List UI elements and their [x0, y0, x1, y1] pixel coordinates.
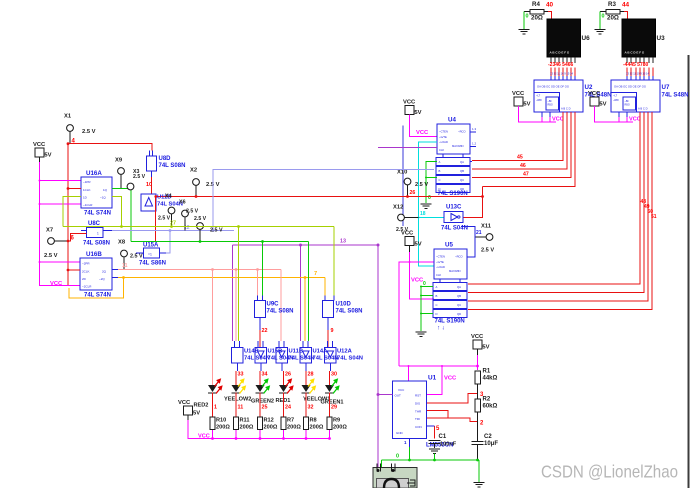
svg-text:R1: R1 [483, 369, 491, 375]
power VCC for U7 [590, 97, 599, 106]
svg-text:5V: 5V [193, 411, 200, 417]
wire U16A notQ to feedback [112, 197, 122, 227]
inverter U11B 74LS04N [278, 341, 280, 348]
wire clock net to oscilloscope [377, 244, 379, 470]
wire orange loop under U16B [69, 278, 124, 299]
svg-text:200Ω: 200Ω [240, 425, 254, 431]
svg-text:44kΩ: 44kΩ [483, 376, 498, 382]
svg-text:R8: R8 [310, 418, 317, 424]
LED RED1 [279, 385, 288, 392]
wire resistor R12 to VCC bus [259, 430, 261, 439]
svg-text:U1: U1 [428, 375, 437, 382]
svg-text:~CTEN: ~CTEN [439, 130, 448, 134]
power VCC for U4 [405, 106, 414, 115]
svg-text:U5: U5 [445, 242, 453, 249]
svg-text:13: 13 [340, 239, 346, 245]
svg-text:~2Q: ~2Q [99, 277, 105, 281]
svg-text:0: 0 [602, 14, 605, 20]
svg-text:CSDN @LionelZhao: CSDN @LionelZhao [541, 462, 678, 482]
svg-text:60kΩ: 60kΩ [483, 404, 498, 410]
svg-text:OA OB OC OD OE OF OG: OA OB OC OD OE OF OG [614, 85, 646, 89]
svg-text:QB: QB [457, 294, 461, 298]
seven-segment display U6 [547, 19, 581, 57]
svg-text:X2: X2 [190, 168, 197, 174]
svg-text:28: 28 [308, 372, 314, 378]
svg-text:VCC: VCC [398, 388, 405, 392]
LED GREEN1 [325, 385, 334, 392]
svg-text:GND: GND [396, 431, 404, 435]
wire U1 THR [427, 411, 448, 419]
svg-text:CON: CON [415, 425, 422, 429]
resistor R4 [524, 11, 530, 13]
wire LED YEELOW1 to resistor R8 [305, 393, 307, 418]
wire resistor R11 to VCC bus [235, 430, 237, 439]
svg-text:X6: X6 [179, 200, 186, 206]
wire U4 CLK from clock net [378, 147, 437, 149]
wire U4 ground tie [426, 162, 437, 204]
svg-text:21: 21 [476, 230, 482, 236]
wire ground bus green [382, 459, 480, 461]
svg-text:1: 1 [97, 232, 99, 236]
svg-text:5V: 5V [44, 153, 51, 159]
decoder U7 74LS48N [611, 80, 660, 112]
svg-text:20Ω: 20Ω [531, 15, 543, 22]
svg-text:2.5 V: 2.5 V [186, 209, 199, 215]
svg-text:QC: QC [457, 303, 461, 307]
svg-text:A B C D E F G: A B C D E F G [550, 51, 570, 55]
svg-text:X11: X11 [481, 224, 492, 230]
svg-text:200Ω: 200Ω [333, 425, 347, 431]
AND gate U8D 74LS08N [151, 144, 153, 151]
capacitor C2 10uF [477, 422, 479, 442]
svg-text:A: A [439, 160, 441, 164]
svg-text:34: 34 [262, 372, 268, 378]
svg-text:10μF: 10μF [484, 441, 498, 447]
power VCC for U2 [514, 97, 523, 106]
svg-text:44: 44 [622, 2, 630, 9]
svg-text:X7: X7 [46, 228, 53, 234]
wire U2 input D bus [483, 112, 576, 187]
svg-text:VCC: VCC [178, 400, 191, 406]
resistor R1 44k [475, 371, 481, 384]
wire U4 load cyan [419, 142, 438, 266]
svg-text:9: 9 [331, 328, 334, 334]
wire yellow-green feedback bus [63, 226, 334, 228]
wire net 13 purple horizontal [233, 244, 379, 246]
svg-text:VCC: VCC [444, 376, 457, 382]
wire VCC to U16A clear [40, 203, 82, 205]
svg-text:A B C D E F G: A B C D E F G [625, 51, 645, 55]
svg-text:46: 46 [520, 163, 526, 169]
display U6 pins [550, 57, 552, 63]
svg-text:~2CLR: ~2CLR [82, 285, 92, 289]
LED YEELOW1 [302, 385, 311, 392]
wire blue vertical net [402, 126, 404, 227]
svg-text:11: 11 [122, 263, 128, 269]
svg-text:~LOAD: ~LOAD [436, 265, 445, 269]
svg-text:20Ω: 20Ω [607, 15, 619, 22]
resistor R3 [600, 11, 606, 13]
svg-text:24: 24 [285, 405, 291, 411]
svg-text:U8D: U8D [159, 156, 172, 162]
svg-text:1.2: 1.2 [472, 142, 477, 146]
svg-text:30: 30 [331, 372, 337, 378]
wire VCC to U4 [410, 115, 438, 137]
svg-text:74L S86N: 74L S86N [139, 261, 166, 267]
svg-text:~2PR: ~2PR [82, 262, 90, 266]
svg-text:RBO: RBO [625, 104, 630, 107]
svg-text:~RCO: ~RCO [455, 255, 463, 259]
svg-text:2Q: 2Q [102, 270, 107, 274]
wire yellow-green to U14B [238, 227, 240, 342]
resistor R12 200 ohm [258, 417, 263, 430]
timer U1 LM555CN [393, 381, 427, 439]
wire U16A clock from clock net [68, 188, 81, 190]
svg-text:VCC: VCC [50, 281, 63, 287]
svg-text:U9C: U9C [267, 302, 280, 308]
wire U1 TRI to R2 C2 junction [427, 418, 478, 422]
svg-text:~1Q: ~1Q [100, 196, 106, 200]
svg-text:R10: R10 [216, 418, 226, 424]
svg-text:74L S74N: 74L S74N [84, 211, 111, 217]
svg-text:13 12 11 10 9 15 14: 13 12 11 10 9 15 14 [626, 72, 649, 76]
wire U8C input 2 [81, 230, 87, 232]
svg-text:OA OB OC OD OE OF OG: OA OB OC OD OE OF OG [537, 85, 569, 89]
svg-text:MAX/MIN: MAX/MIN [452, 144, 464, 148]
svg-text:D: D [439, 187, 441, 191]
svg-text:X9: X9 [115, 158, 123, 164]
wire to LED YEELOW1 [305, 363, 307, 371]
svg-text:74L S08N: 74L S08N [83, 241, 110, 247]
wire LED GREEN1 to resistor R9 [329, 393, 331, 418]
svg-text:~LT: ~LT [613, 95, 618, 98]
svg-text:22: 22 [262, 328, 268, 334]
LED GREEN2 [256, 385, 265, 392]
svg-text:D: D [436, 312, 438, 316]
svg-text:U4: U4 [448, 117, 456, 124]
wire green bus [131, 241, 309, 243]
svg-text:MAX/MIN: MAX/MIN [449, 269, 461, 273]
wire LED RED1 to resistor R7 [283, 393, 285, 418]
resistor R10 200 ohm [210, 417, 215, 430]
svg-text:74L S08N: 74L S08N [336, 309, 363, 315]
wire resistor R7 to VCC bus [283, 430, 285, 439]
svg-text:RED1: RED1 [276, 398, 291, 404]
svg-text:26: 26 [410, 190, 416, 196]
wire to LED GREEN1 [329, 363, 331, 371]
svg-text:26: 26 [285, 372, 291, 378]
wire U1 OUT to clock net [378, 394, 393, 396]
svg-text:25: 25 [262, 405, 268, 411]
svg-text:QC: QC [460, 178, 464, 182]
svg-text:VCC: VCC [471, 334, 484, 340]
svg-text:7: 7 [314, 271, 317, 277]
svg-text:R9: R9 [333, 418, 340, 424]
U4 pin stubs right [470, 131, 476, 133]
wire VCC to U16A preset [40, 180, 82, 182]
svg-text:~1CLR: ~1CLR [83, 203, 93, 207]
svg-text:2.5 V: 2.5 V [158, 216, 171, 222]
resistor R2 60k [477, 394, 479, 400]
svg-text:X12: X12 [393, 205, 403, 211]
wire page border right [688, 55, 690, 488]
svg-text:2.5 V: 2.5 V [396, 227, 409, 233]
wire LED RED2 to resistor R10 [212, 393, 214, 418]
inverter U12A 74LS04N [327, 341, 329, 348]
counter U5 74LS190N [434, 249, 467, 279]
svg-text:74L S48N: 74L S48N [662, 93, 689, 99]
svg-text:45: 45 [517, 155, 523, 161]
wire to LED YEELOW2 [236, 363, 238, 371]
wire cyan branch to U13C [419, 217, 444, 219]
wire U4 QA output [470, 161, 472, 163]
svg-text:VCC: VCC [552, 117, 564, 123]
counter U4 74LS190N [437, 124, 470, 154]
svg-text:QD: QD [460, 187, 464, 191]
svg-text:R12: R12 [264, 418, 274, 424]
svg-text:A B C D: A B C D [561, 107, 571, 111]
svg-text:A B C D: A B C D [638, 107, 648, 111]
svg-text:11: 11 [238, 405, 244, 411]
svg-text:~LT: ~LT [536, 95, 541, 98]
svg-text:~LOAD: ~LOAD [439, 140, 448, 144]
wire clock red horizontal [156, 196, 483, 198]
svg-text:X4: X4 [165, 194, 172, 200]
svg-text:R4: R4 [532, 1, 540, 8]
wire green to oscilloscope [381, 460, 383, 469]
svg-text:QD: QD [457, 312, 461, 316]
ground U4 [421, 203, 432, 205]
resistor R11 200 ohm [234, 417, 239, 430]
svg-text:5V: 5V [523, 102, 530, 108]
AND gate U9C 74LS08N [257, 296, 259, 301]
svg-text:C: C [439, 178, 441, 182]
wire VCC to U2 [519, 106, 557, 122]
svg-text:QA: QA [457, 285, 461, 289]
svg-text:1.3: 1.3 [472, 127, 477, 131]
wire U7 input B bus [468, 112, 644, 293]
AND gate U10D 74LS08N [324, 296, 326, 301]
svg-text:U13C: U13C [446, 205, 462, 211]
svg-text:33: 33 [238, 372, 244, 378]
wire VCC rail U1 [477, 349, 479, 355]
svg-text:200Ω: 200Ω [264, 425, 278, 431]
wire salmon to U14B [235, 270, 237, 342]
wire U15A output to lavender [160, 252, 167, 254]
svg-text:-2346 5466: -2346 5466 [548, 62, 574, 68]
ground for R4 [523, 12, 525, 30]
wire VCC to U7 [595, 106, 634, 122]
svg-text:U12A: U12A [337, 349, 353, 355]
wire purple to U14B [232, 245, 234, 341]
svg-text:74L S08N: 74L S08N [267, 309, 294, 315]
svg-text:~1PR: ~1PR [83, 180, 91, 184]
svg-text:B: B [436, 294, 438, 298]
svg-text:74L S04N: 74L S04N [313, 356, 339, 362]
wire C1 bottom to bus [434, 454, 436, 461]
wire yellow-green to U10D [333, 227, 335, 296]
svg-text:C: C [436, 303, 438, 307]
svg-text:U16B: U16B [86, 251, 102, 258]
svg-text:74L S04N: 74L S04N [337, 356, 363, 362]
ground U5 [416, 331, 427, 333]
ground for R3 [599, 12, 601, 30]
svg-text:2.5 V: 2.5 V [415, 182, 428, 188]
wire salmon to LED RED2 [212, 270, 214, 386]
svg-text:U10D: U10D [336, 302, 352, 308]
wire orange to U10D [324, 278, 326, 296]
wires display U6 to decoder U2 [550, 68, 552, 81]
svg-text:2.5 V: 2.5 V [133, 174, 146, 180]
wire U16B notQ orange [112, 277, 118, 279]
svg-text:0: 0 [526, 14, 529, 20]
svg-text:~G/TE: ~G/TE [436, 260, 444, 264]
svg-text:47: 47 [523, 172, 529, 178]
svg-text:-4445 5780: -4445 5780 [623, 62, 649, 68]
svg-text:5V: 5V [482, 345, 489, 351]
svg-text:U14B: U14B [244, 349, 259, 355]
wire salmon to U9C [257, 270, 259, 296]
svg-text:0: 0 [423, 281, 426, 287]
svg-text:74L S08N: 74L S08N [159, 163, 186, 169]
svg-text:13 12 11 10 9 15 14: 13 12 11 10 9 15 14 [550, 72, 573, 76]
ground C1 [429, 448, 440, 450]
svg-text:200Ω: 200Ω [216, 425, 230, 431]
svg-text:R3: R3 [608, 1, 616, 8]
svg-text:VCC: VCC [629, 117, 641, 123]
wire VCC to U5 preset [409, 246, 411, 253]
svg-text:TRI: TRI [415, 417, 420, 421]
svg-text:RED2: RED2 [194, 403, 209, 409]
svg-text:5V: 5V [414, 110, 421, 116]
svg-text:1: 1 [214, 405, 217, 411]
LED RED2 [208, 385, 217, 392]
wire VCC to U16B preset [40, 261, 81, 263]
svg-text:QB: QB [460, 169, 464, 173]
svg-text:~RBI: ~RBI [613, 99, 619, 102]
inverter U15B 74LS04N [257, 341, 259, 348]
svg-text:X10: X10 [397, 170, 407, 176]
svg-text:B: B [439, 169, 441, 173]
wire U16B clock [68, 269, 80, 271]
wire U2 input A bus [472, 112, 563, 161]
svg-text:~G/TE: ~G/TE [439, 135, 447, 139]
wire U7 input C bus [468, 112, 648, 301]
svg-text:2.5 V: 2.5 V [210, 228, 223, 234]
svg-text:U14A: U14A [313, 349, 329, 355]
resistor R8 200 ohm [304, 417, 309, 430]
wire salmon to U11B [280, 270, 282, 342]
wire resistor R9 to VCC bus [329, 430, 331, 439]
svg-text:C2: C2 [484, 434, 492, 440]
svg-text:C1: C1 [439, 434, 447, 440]
svg-text:5V: 5V [599, 102, 606, 108]
wires display U3 to decoder U7 [626, 68, 628, 81]
svg-text:DIS: DIS [415, 402, 420, 406]
svg-text:R11: R11 [240, 418, 250, 424]
wire U2 input C bus [472, 112, 571, 178]
svg-text:OUT: OUT [395, 394, 402, 398]
svg-text:0: 0 [428, 195, 431, 201]
svg-text:RBO: RBO [548, 104, 553, 107]
wire U9C output [259, 318, 261, 331]
wire U7 input D bus [468, 112, 652, 310]
svg-text:1CLK: 1CLK [83, 188, 91, 192]
seven-segment display U3 [622, 19, 656, 57]
wire bus to ground right [478, 460, 480, 482]
svg-text:40: 40 [546, 2, 554, 9]
svg-text:18: 18 [420, 211, 426, 217]
wire U10D output [327, 318, 329, 331]
svg-text:YEELOW2: YEELOW2 [224, 397, 251, 403]
svg-text:RST: RST [415, 394, 421, 398]
wire U13C output to bus [464, 187, 483, 218]
svg-text:2.5 V: 2.5 V [82, 129, 96, 135]
resistor R9 200 ohm [327, 417, 332, 430]
wire to LED GREEN2 [260, 363, 262, 371]
wire orange to U14A [304, 278, 306, 342]
svg-text:2CLK: 2CLK [82, 270, 90, 274]
svg-text:VCC: VCC [33, 142, 46, 148]
display U3 pins [626, 57, 628, 63]
svg-text:VCC: VCC [512, 91, 525, 97]
svg-text:U11B: U11B [289, 349, 304, 355]
wire U11D output to clock line [155, 197, 157, 242]
resistor R7 200 ohm [281, 417, 286, 430]
wire to LED RED1 [281, 363, 283, 371]
wire U1 DIS to R1 R2 junction [427, 394, 478, 404]
wire U16A D feedback yellow-green [63, 197, 81, 227]
svg-text:↑ ↓: ↑ ↓ [437, 326, 445, 332]
svg-text:THR: THR [415, 410, 422, 414]
wire LED GREEN2 to resistor R12 [259, 393, 261, 418]
svg-text:74L S190N: 74L S190N [435, 319, 465, 325]
svg-text:U6: U6 [582, 35, 591, 42]
svg-text:~RBI: ~RBI [536, 99, 542, 102]
svg-text:=1: =1 [148, 253, 152, 257]
svg-text:A: A [436, 285, 438, 289]
svg-text:VCC: VCC [416, 130, 429, 136]
svg-text:200Ω: 200Ω [310, 425, 324, 431]
svg-text:74L S04N: 74L S04N [289, 356, 315, 362]
wire resistor R8 to VCC bus [305, 430, 307, 439]
wire resistor R10 to VCC bus [212, 430, 214, 439]
wire U15A input [136, 252, 144, 254]
svg-text:1Q: 1Q [103, 188, 108, 192]
wire U16A Q output green [112, 189, 131, 242]
svg-text:VCC: VCC [198, 434, 210, 440]
svg-text:32: 32 [308, 405, 314, 411]
svg-text:U7: U7 [662, 84, 670, 91]
svg-text:100nF: 100nF [440, 442, 457, 448]
svg-text:R7: R7 [287, 418, 294, 424]
wire U16B Q salmon [112, 269, 118, 271]
inverter U14A 74LS04N [302, 341, 304, 348]
wire lavender bus branch [112, 230, 234, 232]
wire VCC left rail [39, 157, 41, 162]
svg-text:X8: X8 [118, 240, 126, 246]
svg-text:51: 51 [651, 214, 657, 220]
wire VCC LED bus magenta [187, 415, 189, 420]
power VCC left [35, 148, 44, 157]
svg-text:U16A: U16A [86, 170, 102, 177]
inverter U11D 74LS04N [141, 194, 156, 211]
oscilloscope XSC1 [373, 468, 417, 488]
svg-text:R2: R2 [483, 397, 491, 403]
svg-text:2.5 V: 2.5 V [44, 253, 58, 259]
wire U1 CON to C1 [434, 426, 436, 439]
wire green to U14A [308, 242, 310, 342]
